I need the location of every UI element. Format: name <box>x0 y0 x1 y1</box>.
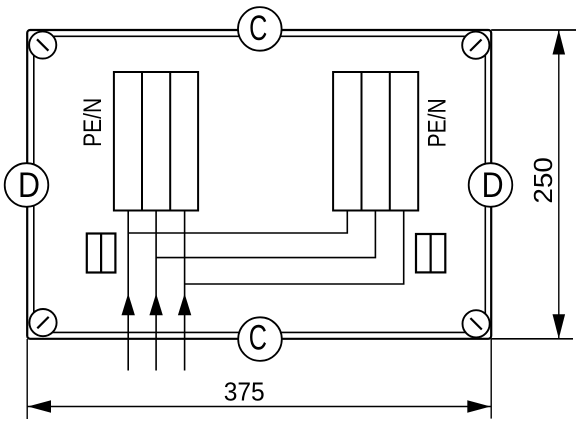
terminal block X2 <box>333 72 418 211</box>
wire L3 arrowhead <box>178 294 191 316</box>
wire L2 <box>156 210 375 370</box>
dimension 375 extension line left <box>26 339 28 419</box>
enclosure outer wall <box>27 30 491 339</box>
dimension 250 arrow up <box>553 30 566 55</box>
wire L3 <box>185 210 404 370</box>
wire L1 <box>128 210 347 370</box>
dimension 250 arrow down <box>553 314 566 339</box>
svg-text:C: C <box>249 9 267 48</box>
wire L1 arrowhead <box>122 294 135 316</box>
dimension 375 line <box>27 406 491 408</box>
svg-text:PE/N: PE/N <box>79 98 107 147</box>
dimension 375 extension line right <box>490 339 492 419</box>
svg-text:C: C <box>249 319 267 358</box>
svg-text:PE/N: PE/N <box>424 98 452 147</box>
cable clamp left <box>87 234 116 273</box>
svg-text:375: 375 <box>224 376 265 406</box>
dimension 375 arrow right <box>467 400 490 413</box>
enclosure lid inner edge <box>34 36 486 332</box>
svg-text:D: D <box>482 165 504 204</box>
svg-text:250: 250 <box>528 157 558 204</box>
wire L2 arrowhead <box>149 294 162 316</box>
corner screw top-right <box>462 32 489 59</box>
dimension 250 extension line bottom <box>491 338 573 340</box>
svg-text:D: D <box>18 165 40 204</box>
cover fastener D right <box>469 163 513 207</box>
cover fastener C top <box>238 7 282 51</box>
cover fastener D left <box>5 163 49 207</box>
dimension 375 arrow left <box>28 400 51 413</box>
corner screw top-left <box>29 31 56 58</box>
terminal block X1 <box>114 72 198 211</box>
corner screw bottom-left <box>29 309 56 336</box>
cable clamp right <box>416 234 445 272</box>
cover fastener C bottom <box>238 317 282 361</box>
corner screw bottom-right <box>463 310 490 337</box>
dimension 250 line <box>558 30 560 339</box>
dimension 250 extension line top <box>491 29 576 31</box>
